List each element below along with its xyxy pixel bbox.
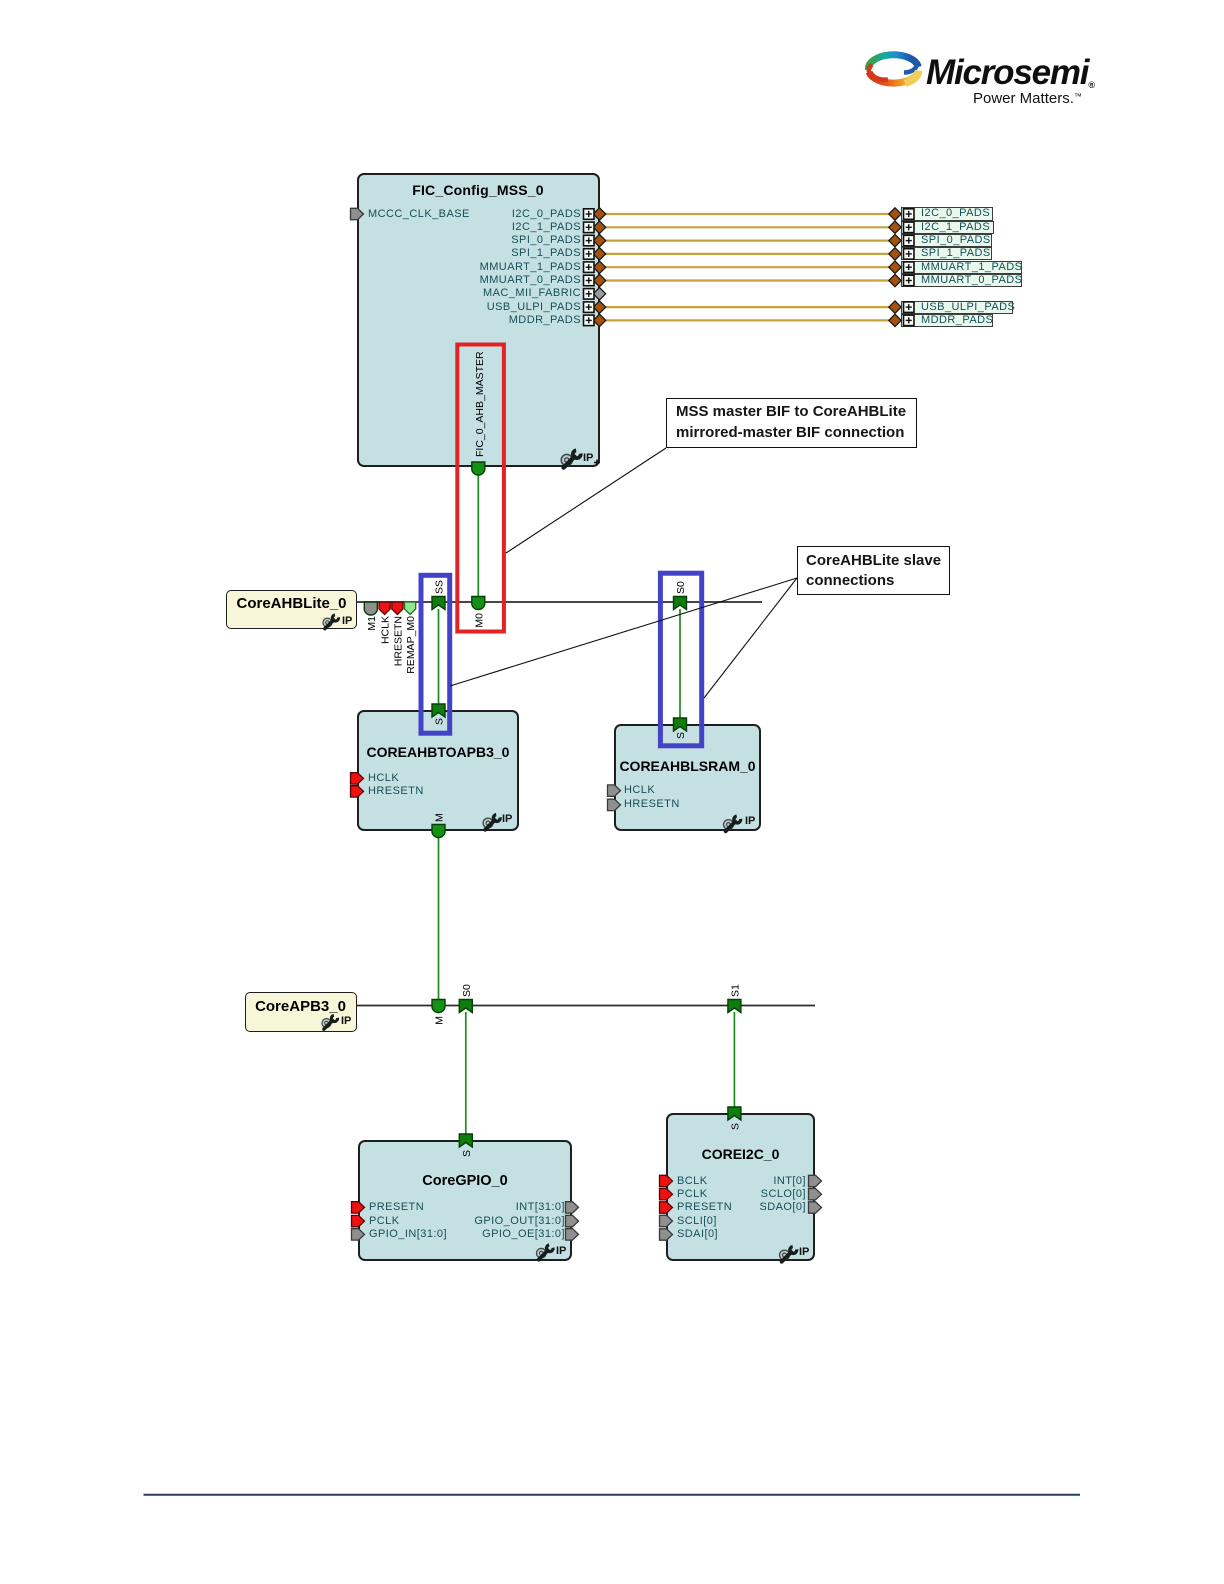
IP wrench icon CoreAHBLite_0 — [323, 615, 339, 629]
BIF pin M1 — [364, 602, 377, 615]
expand icon MMUART_1_PADS — [584, 262, 595, 273]
expand icon MMUART_0_PADS — [584, 275, 595, 286]
Microsemi logo text — [926, 57, 1095, 101]
pin label PRESETN (CoreGPIO) — [369, 1201, 424, 1214]
title FIC_Config_MSS_0 — [357, 182, 599, 198]
BIF pin CoreAPB3 S0 — [459, 1000, 472, 1013]
pad connector diamond MMUART_0_PADS — [593, 274, 605, 286]
pad connector diamond I2C_0_PADS — [593, 208, 605, 220]
pad connector diamond MMUART_0_PADS pad — [889, 274, 901, 286]
IP wrench icon CoreGPIO_0 — [537, 1245, 554, 1260]
svg-text:SS: SS — [434, 580, 446, 594]
pin label INT[31:0] (CoreGPIO) — [365, 1201, 565, 1214]
pin COREAHBTOAPB3 HRESETN — [351, 786, 364, 797]
pad connector diamond SPI_1_PADS — [593, 248, 605, 260]
BIF pin COREAHBLSRAM S — [674, 718, 687, 731]
pin SCLO[0] — [809, 1189, 822, 1200]
wire FIC_0_AHB_MASTER to M0 — [477, 474, 479, 597]
pin label MMUART_0_PADS — [381, 274, 581, 287]
pin label MMUART_1_PADS — [381, 261, 581, 274]
pad connector diamond MMUART_1_PADS — [593, 261, 605, 273]
block CoreGPIO_0 — [358, 1140, 572, 1261]
pad connector diamond USB_ULPI_PADS — [593, 301, 605, 313]
pad box MMUART 1 PADS — [901, 261, 1022, 274]
pin label HRESETN (COREAHBLSRAM) — [624, 798, 680, 811]
pin label GPIO_OE[31:0] (CoreGPIO) — [365, 1228, 565, 1241]
pad box USB ULPI PADS — [901, 301, 1013, 314]
pin label SDAO[0] (COREI2C) — [606, 1201, 806, 1214]
pin label PRESETN (COREI2C) — [677, 1201, 732, 1214]
svg-text:HRESETN: HRESETN — [392, 616, 404, 666]
pad connector diamond MAC_MII_FABRIC — [593, 288, 605, 300]
IP label FIC_Config_MSS_0 — [583, 452, 593, 464]
svg-text:S0: S0 — [675, 581, 687, 594]
pin PRESETN (I2C) — [660, 1202, 673, 1213]
expand icon I2C_0_PADS — [584, 209, 595, 220]
block CoreAHBLite_0 — [226, 590, 357, 630]
pin SDAO[0] — [809, 1202, 822, 1213]
IP wrench icon FIC_Config_MSS_0 — [561, 450, 580, 467]
pin label USB_ULPI_PADS — [381, 301, 581, 314]
wire SPI_1_PADS net — [605, 253, 890, 255]
pin INT[0] — [809, 1175, 822, 1186]
highlight rect slave connection 2 — [660, 573, 701, 746]
wire SS to COREAHBTOAPB3 S — [438, 609, 440, 705]
block FIC_Config_MSS_0 — [357, 173, 600, 468]
title CoreAPB3_0 — [246, 998, 355, 1015]
BIF pin CoreAPB3 S1 — [728, 1000, 741, 1013]
pin label HRESETN (COREAHBTOAPB3) — [368, 785, 424, 798]
expand icon I2C_1_PADS pad — [904, 222, 915, 233]
pad connector diamond MDDR_PADS — [593, 314, 605, 326]
pin label SDAI[0] (COREI2C) — [677, 1228, 718, 1241]
expand icon I2C_1_PADS — [584, 222, 595, 233]
pin REMAP_M0 — [405, 602, 416, 615]
pad connector diamond I2C_1_PADS — [593, 221, 605, 233]
IP wrench icon CoreAPB3_0 — [322, 1015, 338, 1029]
expand icon SPI_1_PADS pad — [904, 249, 915, 260]
block COREAHBTOAPB3_0 — [357, 710, 519, 831]
pin label HCLK (COREAHBTOAPB3) — [368, 772, 399, 785]
pin INT[31:0] — [566, 1202, 579, 1213]
pad connector diamond USB_ULPI_PADS pad — [889, 301, 901, 313]
wire I2C_1_PADS net — [605, 226, 890, 228]
BIF pin COREAHBTOAPB3 S — [432, 704, 445, 717]
pin SCLI[0] — [660, 1215, 673, 1226]
pin PCLK (I2C) — [660, 1189, 673, 1200]
pin label I2C_0_PADS — [381, 208, 581, 221]
wire COREAHBTOAPB3 M to CoreAPB3 M — [438, 837, 440, 1000]
Microsemi logo swirl — [868, 55, 918, 84]
expand icon SPI_0_PADS pad — [904, 235, 915, 246]
wire S0 to CoreGPIO S — [465, 1012, 467, 1135]
callout MSS master BIF to CoreAHBLite — [666, 398, 917, 448]
expand icon MDDR_PADS pad — [904, 315, 915, 326]
pad box I2C 1 PADS — [901, 221, 994, 234]
pin label MCCC_CLK_BASE — [368, 208, 470, 221]
title CoreAHBLite_0 — [228, 595, 355, 612]
expand icon SPI_1_PADS — [584, 249, 595, 260]
IP label CoreAHBLite_0 — [342, 615, 352, 627]
pad box SPI 0 PADS — [901, 234, 992, 247]
wire MMUART_1_PADS net — [605, 266, 890, 268]
BIF pin CoreGPIO S — [459, 1134, 472, 1147]
pin label GPIO_OUT[31:0] (CoreGPIO) — [365, 1215, 565, 1228]
expand icon USB_ULPI_PADS pad — [904, 302, 915, 313]
pad connector diamond I2C_0_PADS pad — [889, 208, 901, 220]
callout CoreAHBLite slave connections — [797, 546, 950, 595]
IP wrench icon COREAHBTOAPB3_0 — [483, 815, 500, 830]
wire USB_ULPI_PADS net — [605, 306, 890, 308]
BIF pin S0 — [674, 597, 687, 610]
block CoreAPB3_0 — [245, 992, 357, 1031]
wire SPI_0_PADS net — [605, 240, 890, 242]
pin COREAHBTOAPB3 HCLK — [351, 773, 364, 784]
pad connector diamond SPI_0_PADS pad — [889, 234, 901, 246]
block COREI2C_0 — [666, 1113, 815, 1261]
IP label COREI2C_0 — [799, 1246, 809, 1258]
pad connector diamond SPI_1_PADS pad — [889, 248, 901, 260]
pin GPIO_OUT[31:0] — [566, 1215, 579, 1226]
pin HRESETN — [392, 602, 403, 615]
expand icon MAC_MII_FABRIC — [584, 289, 595, 300]
pin MCCC_CLK_BASE — [351, 208, 364, 219]
BIF pin FIC_0_AHB_MASTER — [472, 462, 485, 475]
pad box SPI 1 PADS — [901, 247, 992, 260]
pad box MMUART 0 PADS — [901, 274, 1022, 287]
pin label BCLK (COREI2C) — [677, 1175, 708, 1188]
expand icon I2C_0_PADS pad — [904, 209, 915, 220]
pad connector diamond I2C_1_PADS pad — [889, 221, 901, 233]
title COREI2C_0 — [666, 1146, 815, 1162]
pin label SPI_0_PADS — [381, 234, 581, 247]
block COREAHBLSRAM_0 — [614, 724, 761, 831]
IP label CoreAPB3_0 — [341, 1015, 351, 1027]
expand icon SPI_0_PADS — [584, 235, 595, 246]
pin label INT[0] (COREI2C) — [606, 1175, 806, 1188]
pin HCLK — [379, 602, 390, 615]
highlight rect MSS master BIF connection — [457, 345, 504, 632]
pin COREAHBLSRAM HRESETN — [608, 799, 621, 810]
callout line MSS master BIF — [506, 448, 666, 553]
callout line slave connections right — [704, 578, 797, 698]
pin label HCLK (COREAHBLSRAM) — [624, 784, 655, 797]
title COREAHBLSRAM_0 — [614, 758, 761, 774]
expand icon MMUART_1_PADS pad — [904, 262, 915, 273]
svg-text:S0: S0 — [461, 984, 473, 997]
title COREAHBTOAPB3_0 — [357, 744, 519, 760]
IP wrench icon COREAHBLSRAM_0 — [724, 816, 741, 831]
wire MMUART_0_PADS net — [605, 279, 890, 281]
IP wrench icon COREI2C_0 — [780, 1247, 797, 1262]
expand icon MMUART_0_PADS pad — [904, 275, 915, 286]
pin PCLK — [352, 1215, 365, 1226]
pad box I2C 0 PADS — [901, 207, 993, 220]
expand icon USB_ULPI_PADS — [584, 302, 595, 313]
pad connector diamond MDDR_PADS pad — [889, 314, 901, 326]
callout line slave connections left — [450, 578, 797, 686]
svg-text:M0: M0 — [473, 613, 485, 628]
wire MDDR_PADS net — [605, 319, 890, 321]
wire I2C_0_PADS net — [605, 213, 890, 215]
IP label COREAHBLSRAM_0 — [745, 815, 755, 827]
pin GPIO_OE[31:0] — [566, 1229, 579, 1240]
pin label SCLI[0] (COREI2C) — [677, 1215, 717, 1228]
pin label I2C_1_PADS — [381, 221, 581, 234]
BIF pin COREAHBTOAPB3 M — [432, 825, 445, 838]
IP label CoreGPIO_0 — [556, 1245, 566, 1257]
BIF pin COREI2C S — [728, 1107, 741, 1120]
svg-text:S1: S1 — [729, 984, 741, 997]
pin label GPIO_IN[31:0] (CoreGPIO) — [369, 1228, 447, 1241]
pad connector diamond SPI_0_PADS — [593, 234, 605, 246]
IP label COREAHBTOAPB3_0 — [502, 813, 512, 825]
BIF pin CoreAPB3 M — [432, 1000, 445, 1013]
IP plus mark FIC — [594, 460, 600, 466]
wire S0 to COREAHBLSRAM S — [679, 609, 681, 719]
title CoreGPIO_0 — [358, 1173, 572, 1189]
pin label SCLO[0] (COREI2C) — [606, 1188, 806, 1201]
wire S1 to COREI2C S — [733, 1012, 735, 1108]
pin PRESETN — [352, 1202, 365, 1213]
pad connector diamond MMUART_1_PADS pad — [889, 261, 901, 273]
svg-text:M: M — [434, 1016, 446, 1025]
svg-text:M1: M1 — [366, 616, 378, 631]
svg-text:HCLK: HCLK — [380, 616, 392, 644]
pin SDAI[0] — [660, 1229, 673, 1240]
wire CoreAHBLite bus — [357, 601, 762, 603]
pin label MAC_MII_FABRIC — [381, 287, 581, 300]
wire CoreAPB3 bus — [357, 1005, 815, 1007]
expand icon MDDR_PADS — [584, 315, 595, 326]
pin label MDDR_PADS — [381, 314, 581, 327]
pad box MDDR PADS — [901, 314, 993, 327]
BIF pin M0 — [472, 597, 485, 610]
footer rule — [144, 1494, 1081, 1496]
pin GPIO_IN — [352, 1229, 365, 1240]
highlight rect slave connection 1 — [421, 575, 450, 733]
svg-text:REMAP_M0: REMAP_M0 — [405, 616, 417, 674]
Microsemi tagline — [973, 90, 1082, 107]
pin label SPI_1_PADS — [381, 247, 581, 260]
pin label PCLK (CoreGPIO) — [369, 1215, 400, 1228]
pin COREAHBLSRAM HCLK — [608, 785, 621, 796]
BIF pin SS — [432, 597, 445, 610]
pin label PCLK (COREI2C) — [677, 1188, 708, 1201]
pin BCLK — [660, 1175, 673, 1186]
